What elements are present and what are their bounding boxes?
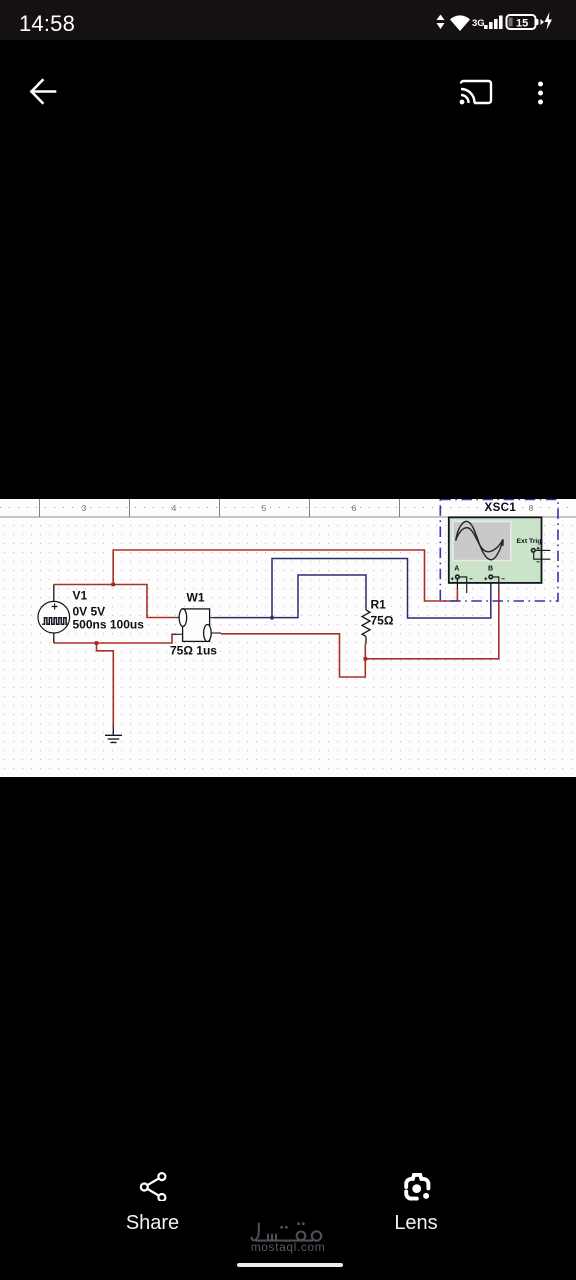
svg-text:75Ω 1us: 75Ω 1us [170, 644, 217, 658]
junction at R1 bottom net [364, 657, 368, 661]
wire: ground branch [97, 643, 114, 726]
wire: W1 upper-right to R1 top (blue net) [214, 575, 366, 618]
wire: V1 top lead to net [54, 585, 173, 618]
svg-text:5: 5 [262, 503, 267, 513]
oscilloscope XSC1 body [449, 517, 542, 583]
svg-text:8: 8 [529, 503, 534, 513]
watermark logo (mustaqil arabic) [248, 1213, 328, 1246]
svg-text:0V 5V: 0V 5V [73, 605, 106, 619]
wire: net to oscilloscope channel A [113, 550, 457, 601]
svg-text:3: 3 [82, 503, 87, 513]
app bar: back arrow [28, 77, 58, 106]
svg-text:Ext Trig: Ext Trig [517, 538, 542, 545]
lens icon [398, 1166, 440, 1208]
svg-text:3G: 3G [472, 18, 485, 29]
app bar: overflow menu [533, 77, 549, 107]
wire: blue net to oscilloscope channel B [272, 559, 491, 619]
watermark [0, 1240, 576, 1254]
svg-text:75Ω: 75Ω [371, 614, 394, 628]
resistor R1 [362, 604, 370, 645]
svg-text:4: 4 [172, 503, 177, 513]
svg-text:500ns 100us: 500ns 100us [73, 618, 145, 632]
svg-text:15: 15 [516, 18, 528, 30]
gesture pill [237, 1263, 343, 1267]
svg-text:V1: V1 [73, 589, 88, 603]
ground [105, 726, 122, 743]
status bar [0, 0, 576, 40]
junction at V1 bottom net [95, 641, 99, 645]
svg-text:B: B [488, 566, 493, 573]
scope trace A [456, 521, 503, 559]
svg-text:6: 6 [352, 503, 357, 513]
wire: R1 bottom to oscilloscope channel B minus [365, 590, 499, 659]
app bar: cast icon [458, 76, 494, 107]
junction at V1 top net [111, 583, 115, 587]
schematic image [0, 499, 576, 777]
svg-text:R1: R1 [371, 598, 387, 612]
channel A terminal [451, 574, 473, 593]
voltage source V1 [38, 585, 70, 644]
ext trig terminal [531, 547, 551, 562]
wire: W1 lower-right to R1 bottom [221, 634, 365, 677]
ruler strip [0, 499, 576, 517]
oscilloscope XSC1 selection box [440, 500, 558, 602]
channel B terminal [484, 574, 504, 590]
transmission line W1 [172, 609, 221, 642]
scope trace B [456, 528, 503, 552]
svg-text:A: A [454, 566, 459, 573]
share icon [136, 1170, 169, 1201]
svg-text:XSC1: XSC1 [485, 502, 517, 514]
junction (blue) at W1 output net [269, 615, 274, 620]
wire: V1 bottom to W1 lower-left [54, 634, 176, 643]
status icons [430, 0, 576, 40]
svg-text:W1: W1 [187, 591, 205, 605]
dotted grid [0, 518, 576, 777]
